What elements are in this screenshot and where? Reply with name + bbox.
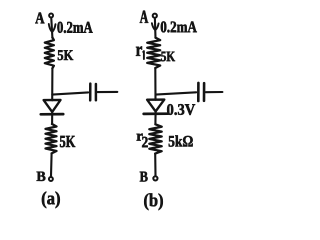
capacitor (right) plate 1 <box>197 83 200 101</box>
current arrow 0.2mA (right, pointing down) <box>152 23 159 30</box>
wire (right capacitor to right stub) <box>206 91 223 93</box>
label A (right) <box>140 11 148 23</box>
label 0.2mA (right) <box>161 21 197 32</box>
label r2 sub 2 (right lower) <box>142 137 148 147</box>
label r1 r (right upper) <box>136 46 142 55</box>
wire (right, junction to capacitor) <box>156 92 197 94</box>
label 5K (right upper) <box>161 52 175 62</box>
node A (left terminal circle) <box>49 14 53 18</box>
wire (left, resistor to diode anode) <box>51 68 53 100</box>
label (b) <box>144 193 163 210</box>
label 0.2mA (left) <box>57 22 92 33</box>
label 0.3V (right diode) <box>167 104 195 115</box>
diode D (right) cathode bar <box>144 112 168 115</box>
capacitor (right) plate 2 <box>203 83 206 101</box>
label 5K (left lower) <box>60 136 75 147</box>
wire (right, r1 to diode anode) <box>154 68 156 100</box>
label B (left) <box>37 172 46 181</box>
wire (right, r2 to node B) <box>154 154 156 176</box>
current arrow 0.2mA (left, pointing down) <box>49 24 56 32</box>
label B (right) <box>140 172 148 182</box>
diode D (left) triangle <box>44 100 61 112</box>
wire (left capacitor to right stub) <box>98 91 118 93</box>
wire (right, A to r1 top, arrow shaft) <box>154 19 157 38</box>
label A (left) <box>35 13 44 24</box>
diode D (left) cathode bar <box>41 113 63 116</box>
wire (left, junction to capacitor) <box>52 92 88 94</box>
capacitor (left) plate 1 <box>89 84 92 101</box>
node A (right terminal circle) <box>153 14 157 18</box>
resistor R 5K (left upper) <box>45 38 54 69</box>
resistor 5K (left lower) <box>46 124 57 153</box>
diode D (right) triangle <box>147 100 164 112</box>
wire (left, diode to lower resistor) <box>51 112 53 124</box>
node B (left terminal circle) <box>49 177 53 181</box>
label 5K (left upper) <box>58 50 73 60</box>
label 5kOhm (right lower) <box>169 135 193 146</box>
label r2 r (right lower) <box>137 134 143 141</box>
resistor r2 5kOhm (right lower) <box>149 124 161 153</box>
wire (right, diode to r2) <box>154 111 156 124</box>
label (a) <box>42 192 60 209</box>
wire (left, A to resistor top, arrow shaft) <box>51 19 52 38</box>
label r1 subscript 1 (hand bar) <box>142 51 145 59</box>
node B (right terminal circle) <box>153 176 157 180</box>
wire (left, resistor to node B) <box>50 153 53 176</box>
resistor r1 5K (right upper) <box>147 38 160 68</box>
capacitor (left) plate 2 <box>95 84 98 100</box>
